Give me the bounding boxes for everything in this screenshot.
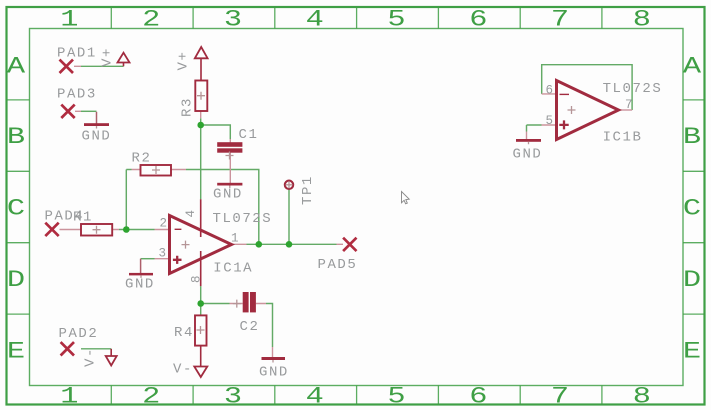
svg-text:2: 2 [160,217,168,231]
svg-text:C1: C1 [239,127,259,143]
svg-text:8: 8 [190,275,204,283]
svg-text:V+: V+ [176,51,192,71]
svg-text:4: 4 [184,210,198,218]
svg-text:IC1A: IC1A [213,261,253,277]
svg-text:GND: GND [213,187,243,203]
svg-text:6: 6 [469,8,487,34]
svg-text:GND: GND [259,365,289,381]
svg-text:E: E [7,339,25,365]
svg-text:2: 2 [142,385,160,410]
svg-text:1: 1 [60,385,78,410]
svg-text:5: 5 [387,8,405,34]
svg-text:A: A [7,54,26,80]
svg-text:8: 8 [633,385,651,410]
svg-text:7: 7 [551,8,569,34]
svg-text:D: D [7,268,25,294]
svg-text:A: A [683,54,702,80]
svg-text:7: 7 [551,385,569,410]
svg-text:6: 6 [469,385,487,410]
svg-text:TL072S: TL072S [213,211,273,227]
svg-text:PAD5: PAD5 [318,257,358,273]
svg-text:V-: V- [173,362,193,378]
svg-text:R4: R4 [174,325,194,341]
svg-text:GND: GND [125,277,155,293]
svg-text:3: 3 [224,385,242,410]
svg-text:B: B [683,125,701,151]
svg-text:PAD2: PAD2 [59,326,99,342]
svg-text:4: 4 [306,385,324,410]
svg-text:GND: GND [513,147,543,163]
svg-text:8: 8 [633,8,651,34]
svg-text:D: D [683,268,701,294]
svg-text:B: B [7,125,25,151]
svg-text:C: C [7,197,25,223]
svg-text:1: 1 [231,231,239,245]
svg-text:IC1B: IC1B [603,130,643,146]
svg-text:PAD3: PAD3 [57,87,97,103]
svg-text:2: 2 [142,8,160,34]
svg-text:6: 6 [546,84,554,98]
svg-text:3: 3 [159,247,167,261]
svg-text:3: 3 [224,8,242,34]
svg-text:V+: V+ [100,47,116,67]
svg-text:C: C [683,197,701,223]
svg-text:R3: R3 [180,97,196,117]
svg-text:1: 1 [60,8,78,34]
svg-text:C2: C2 [240,319,260,335]
svg-text:7: 7 [625,98,633,112]
svg-text:TP1: TP1 [300,175,316,205]
svg-text:PAD1: PAD1 [57,46,97,62]
svg-text:TL072S: TL072S [603,81,663,97]
svg-text:GND: GND [82,129,112,145]
svg-text:R1: R1 [73,209,93,225]
svg-text:5: 5 [387,385,405,410]
svg-text:R2: R2 [132,151,152,167]
svg-text:5: 5 [546,114,554,128]
svg-text:E: E [683,339,701,365]
svg-text:4: 4 [306,8,324,34]
svg-text:V-: V- [83,347,99,367]
